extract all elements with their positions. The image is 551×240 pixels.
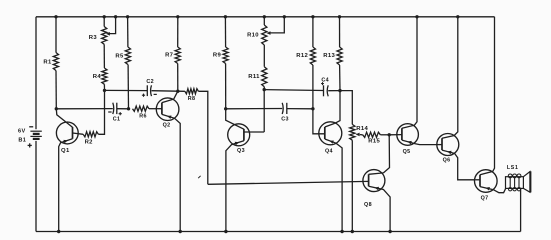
- wire Q6 emitter to Q7 base: [475, 179, 480, 181]
- transistor Q8 emitter: [369, 186, 391, 231]
- svg-text:R2: R2: [85, 140, 94, 146]
- label R1: [43, 60, 52, 66]
- transistor Q3 emitter: [226, 141, 244, 232]
- transistor Q2 emitter arrow: [167, 116, 172, 119]
- wire R14 wiper to R15: [360, 134, 363, 136]
- transistor Q5 collector: [402, 17, 417, 128]
- capacitor C4: [324, 85, 329, 96]
- resistor R5: [125, 47, 130, 65]
- potentiometer R14 wiper arrow: [356, 133, 360, 137]
- label R15: [368, 139, 380, 145]
- transistor Q4 collector: [325, 123, 335, 127]
- transistor Q7 collector: [480, 17, 495, 175]
- label Q1: [61, 148, 70, 154]
- label C4: [321, 77, 329, 83]
- label B1: [18, 137, 26, 143]
- wire R4 bottom lead: [103, 84, 105, 90]
- wire R11 bottom lead: [263, 87, 265, 90]
- wire C1 right lead: [117, 108, 129, 110]
- resistor R1: [53, 53, 58, 71]
- wire R3 to R4: [103, 44, 105, 68]
- transistor Q6 base bar: [441, 138, 443, 150]
- node top rail to R3 wiper: [114, 15, 117, 18]
- node top rail to R10 wiper: [283, 15, 286, 18]
- transistor Q5 circle: [397, 124, 419, 146]
- svg-text:R7: R7: [165, 53, 174, 59]
- wire Q8 collector up: [383, 135, 389, 173]
- label R13: [323, 53, 335, 59]
- svg-text:R5: R5: [115, 54, 124, 60]
- wire Q1 base lead: [56, 109, 72, 128]
- wire C3 right line: [287, 108, 313, 110]
- svg-text:R8: R8: [188, 96, 196, 102]
- transistor Q4 emitter arrow: [329, 141, 334, 144]
- node Q4 emitter at ground rail: [340, 230, 343, 233]
- svg-text:Q4: Q4: [325, 149, 333, 155]
- node Q1 emitter at ground rail: [57, 230, 60, 233]
- svg-text:R1: R1: [43, 60, 52, 66]
- wire C3 left line: [226, 108, 283, 110]
- label Q3: [237, 148, 245, 154]
- transistor Q7 circle: [475, 170, 498, 193]
- transistor Q6 circle: [437, 134, 459, 156]
- svg-text:R15: R15: [368, 139, 380, 145]
- wire C4 node to R14 top: [340, 91, 352, 125]
- transistor Q3 emitter arrow: [235, 142, 240, 146]
- svg-text:Q2: Q2: [163, 122, 171, 128]
- transistor Q6 collector: [442, 17, 458, 138]
- label Q8: [364, 202, 372, 208]
- transistor Q1 emitter arrow: [63, 140, 68, 143]
- transistor Q2 emitter: [162, 114, 180, 231]
- wire R7 bottom lead: [177, 64, 179, 92]
- wire stray mark: [198, 176, 200, 178]
- label C1: [113, 117, 121, 123]
- battery minus sign: [29, 126, 33, 128]
- resistor R7: [175, 47, 180, 64]
- wire C1 left line: [56, 108, 113, 110]
- label C2 plus: [142, 94, 145, 97]
- svg-text:R9: R9: [213, 53, 222, 59]
- svg-text:Q5: Q5: [403, 149, 411, 155]
- wire R1 bottom lead: [55, 71, 57, 109]
- resistor R13: [337, 47, 342, 65]
- node R11 / C4 line / Q3 collector: [263, 88, 266, 91]
- transistor Q4 emitter: [325, 139, 342, 232]
- wire left battery column bottom: [35, 141, 37, 232]
- node top rail to R9: [224, 15, 227, 18]
- label Q7: [481, 196, 489, 202]
- label Q4: [325, 149, 333, 155]
- wire R13 node down to Q4 collector: [335, 91, 340, 124]
- resistor R6: [133, 106, 150, 111]
- wire R9 top lead: [224, 17, 226, 47]
- node top rail to R7: [176, 15, 179, 18]
- transistor Q3 collector: [244, 131, 264, 133]
- svg-text:R12: R12: [296, 53, 308, 59]
- wire R13 bottom lead: [339, 65, 341, 91]
- svg-text:C3: C3: [281, 117, 289, 123]
- node R1 / C1 line / Q1 base: [55, 107, 58, 110]
- svg-text:R3: R3: [89, 35, 98, 41]
- transistor Q7 emitter: [480, 187, 506, 193]
- label R12: [296, 53, 308, 59]
- capacitor C2: [147, 85, 151, 96]
- wire R10 top lead: [263, 17, 265, 25]
- svg-text:R11: R11: [248, 74, 260, 80]
- label C1 minus: [108, 111, 111, 113]
- node R4 / R2 / C2 line: [103, 89, 106, 92]
- wire bottom ground rail: [36, 231, 521, 233]
- wire R10 to R11: [263, 45, 265, 67]
- label Q5: [403, 149, 411, 155]
- wire R3 top lead: [103, 17, 105, 27]
- node top rail to R12: [311, 15, 314, 18]
- wire Q4 base lead: [313, 109, 325, 134]
- resistor R4: [102, 68, 107, 84]
- svg-text:R10: R10: [247, 32, 259, 38]
- battery plus sign: [28, 143, 32, 147]
- node Q3 emitter at ground rail: [224, 230, 227, 233]
- wire R12 top lead: [312, 17, 314, 47]
- wire Q5 to Q6 base: [437, 144, 442, 146]
- node top rail to R10: [263, 15, 266, 18]
- transistor Q8 base bar: [368, 174, 370, 186]
- node Q2 collector / R7 / R8: [176, 90, 179, 93]
- transistor Q7 base bar: [479, 175, 481, 187]
- label R2: [85, 140, 94, 146]
- node Q6 collector at top rail: [456, 15, 459, 18]
- node Q2 emitter at ground rail: [179, 230, 182, 233]
- transistor Q3 circle: [228, 124, 250, 146]
- node R15 / Q8 collector / Q5 base: [388, 133, 391, 136]
- svg-text:6V: 6V: [18, 129, 26, 135]
- wire R9 bottom lead: [225, 64, 227, 109]
- resistor R12: [310, 47, 315, 65]
- wire R8 left lead: [178, 90, 185, 92]
- resistor R9: [223, 47, 228, 64]
- resistor R14 potentiometer: [350, 124, 355, 140]
- potentiometer R3 wiper arrow: [106, 32, 110, 36]
- label Q6: [443, 158, 451, 164]
- transistor Q5 emitter arrow: [407, 141, 412, 145]
- transistor Q7 emitter arrow: [485, 187, 490, 191]
- label R4: [93, 74, 102, 80]
- label R5: [115, 54, 124, 60]
- wire R8 right lead down: [198, 91, 207, 184]
- speaker LS1 coil: [506, 174, 524, 191]
- potentiometer R10 wiper arrow: [267, 31, 271, 35]
- transistor Q6 emitter arrow: [447, 151, 452, 155]
- label 6V: [18, 129, 26, 135]
- wire C4 right line: [328, 90, 340, 92]
- wire C2 right line: [152, 90, 178, 93]
- label R9: [213, 53, 222, 59]
- svg-text:R4: R4: [93, 74, 102, 80]
- capacitor C3: [282, 103, 287, 114]
- transistor Q8 collector: [369, 173, 384, 174]
- wire R1 top lead: [55, 17, 57, 53]
- transistor Q1 circle: [56, 122, 78, 144]
- transistor Q2 collector: [162, 91, 178, 102]
- svg-text:Q8: Q8: [364, 202, 372, 208]
- resistor R10 potentiometer: [262, 25, 267, 45]
- wire R3 wiper: [110, 17, 116, 34]
- label C2: [146, 79, 154, 85]
- node R5 / C1 / R6: [127, 107, 130, 110]
- label R11: [248, 74, 260, 80]
- svg-text:Q1: Q1: [61, 148, 70, 154]
- node R9 / C3 / Q3 base: [224, 107, 227, 110]
- wire R8 to Q8 base long line: [208, 181, 369, 184]
- label R14: [356, 126, 368, 132]
- wire R11 node down to Q3 collector: [263, 90, 265, 132]
- label LS1: [507, 165, 519, 171]
- svg-text:Q7: Q7: [481, 196, 489, 202]
- transistor Q4 base bar: [324, 127, 326, 139]
- label R6: [139, 114, 147, 120]
- wire R10 wiper: [270, 17, 284, 33]
- node C3 / R12 / Q4 base: [311, 107, 314, 110]
- transistor Q3 base bar: [243, 129, 245, 141]
- node top rail to R1: [54, 15, 57, 18]
- wire C4 left line: [264, 89, 323, 92]
- resistor R15: [363, 132, 381, 137]
- transistor Q1 collector: [73, 133, 84, 134]
- transistor Q5 emitter: [402, 140, 437, 145]
- label R3: [89, 35, 98, 41]
- resistor R3 potentiometer: [102, 27, 107, 45]
- speaker LS1 cone: [523, 171, 530, 192]
- resistor R8: [185, 89, 199, 94]
- battery B1: [30, 131, 41, 139]
- transistor Q4 circle: [319, 122, 342, 145]
- node top rail to R13: [338, 15, 341, 18]
- wire R13 top lead: [339, 17, 341, 47]
- capacitor C1: [113, 103, 117, 114]
- transistor Q1 base bar: [72, 127, 74, 139]
- wire R5 top lead: [127, 17, 129, 47]
- svg-text:R6: R6: [139, 114, 147, 120]
- node Q5 collector at top rail: [415, 15, 418, 18]
- label Q2: [163, 122, 171, 128]
- transistor Q5 base bar: [401, 128, 403, 140]
- wire R12 bottom lead: [312, 65, 314, 109]
- svg-text:LS1: LS1: [507, 165, 519, 171]
- transistor Q1 emitter: [59, 139, 73, 232]
- svg-text:Q3: Q3: [237, 148, 245, 154]
- svg-text:R13: R13: [323, 53, 335, 59]
- node R14 at ground rail: [351, 230, 354, 233]
- node top rail to R5: [126, 15, 129, 18]
- node Q8 emitter at ground rail: [388, 230, 391, 233]
- wire LS1 to ground rail: [520, 188, 522, 231]
- transistor Q8 emitter arrow: [375, 187, 380, 191]
- resistor R11: [262, 67, 267, 87]
- label C3: [281, 117, 289, 123]
- wire left battery column top: [35, 17, 37, 129]
- label R7: [165, 53, 174, 59]
- transistor Q2 base bar: [161, 103, 163, 115]
- svg-text:C1: C1: [113, 117, 121, 123]
- node R13 / C4 / R14 line: [338, 89, 341, 92]
- resistor R2: [83, 132, 98, 137]
- transistor Q8 circle: [363, 170, 385, 192]
- transistor Q6 emitter: [442, 150, 475, 180]
- label C1 plus: [119, 112, 122, 115]
- wire R5 bottom lead: [127, 65, 129, 109]
- wire R7 top lead: [177, 17, 179, 47]
- svg-text:B1: B1: [18, 137, 26, 143]
- wire top supply rail: [36, 16, 495, 18]
- node top rail to R3: [103, 15, 106, 18]
- wire R15 right lead: [380, 134, 389, 136]
- wire R15 node to Q5 base: [389, 134, 402, 136]
- wire Q3 base lead: [226, 109, 244, 129]
- wire R14 bottom lead: [351, 140, 353, 231]
- transistor Q2 circle: [156, 98, 179, 121]
- svg-text:Q6: Q6: [443, 158, 451, 164]
- wire R2 right lead up: [98, 90, 104, 134]
- svg-text:C2: C2: [146, 79, 154, 85]
- wire C2 left line: [105, 89, 148, 91]
- label R8: [188, 96, 196, 102]
- label C4 plus: [321, 82, 324, 85]
- label C2 minus: [154, 93, 157, 95]
- wire R6 to Q2 base: [149, 108, 162, 110]
- label R10: [247, 32, 259, 38]
